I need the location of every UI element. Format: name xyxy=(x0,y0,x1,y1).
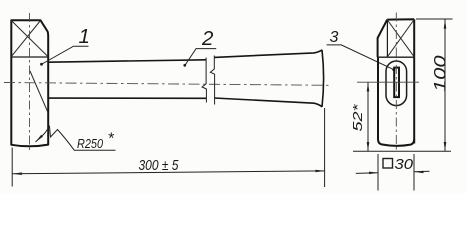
head vertical centerline xyxy=(29,13,31,151)
dim 300 line xyxy=(12,171,325,174)
label 3 leader xyxy=(327,45,395,70)
head lower face diagonal xyxy=(30,71,48,113)
R250 leader with zigzag and arrow on arc xyxy=(36,127,116,151)
eye slot xyxy=(386,61,407,106)
svg-text:1: 1 xyxy=(79,25,90,48)
label 2 leader xyxy=(185,49,216,66)
dim 52 line xyxy=(367,82,369,151)
svg-text:R250: R250 xyxy=(77,137,103,151)
right head vertical centerline xyxy=(395,13,397,153)
svg-text:52*: 52* xyxy=(350,103,365,131)
dim 300 extension line right xyxy=(324,108,326,187)
dim 30 extension lines xyxy=(377,154,379,191)
dim 30 square symbol xyxy=(383,159,393,169)
handle end cap xyxy=(322,50,324,107)
svg-text:2: 2 xyxy=(201,27,214,50)
handle top edge xyxy=(48,50,322,62)
svg-text:100: 100 xyxy=(431,55,450,92)
dim 100 top extension line xyxy=(416,18,453,20)
handle break line right xyxy=(210,56,214,105)
svg-text:3: 3 xyxy=(330,29,339,46)
head step line xyxy=(11,56,48,58)
handle break line left xyxy=(202,58,206,103)
hammer head side view outline xyxy=(11,20,48,146)
label 1 leader xyxy=(42,46,89,64)
eye horizontal centerline / 52 extension xyxy=(357,81,419,83)
bottom extension line xyxy=(353,150,451,152)
right head chamfer facet line xyxy=(386,20,388,57)
right head step line xyxy=(378,56,414,58)
head top face cross xyxy=(11,21,48,57)
wedge xyxy=(394,68,399,98)
handle bottom edge xyxy=(48,98,322,107)
handle axis centerline xyxy=(4,83,330,86)
dim 100 line xyxy=(444,19,446,151)
right head top face cross xyxy=(387,20,414,57)
dim 300 extension line left xyxy=(11,148,13,187)
right head view top outline xyxy=(378,19,415,143)
svg-text:30: 30 xyxy=(395,156,414,173)
right head body outline xyxy=(378,57,414,146)
dim 30 line with inward arrows xyxy=(356,172,378,175)
svg-text:300 ± 5: 300 ± 5 xyxy=(139,158,180,174)
svg-text:*: * xyxy=(108,131,115,148)
